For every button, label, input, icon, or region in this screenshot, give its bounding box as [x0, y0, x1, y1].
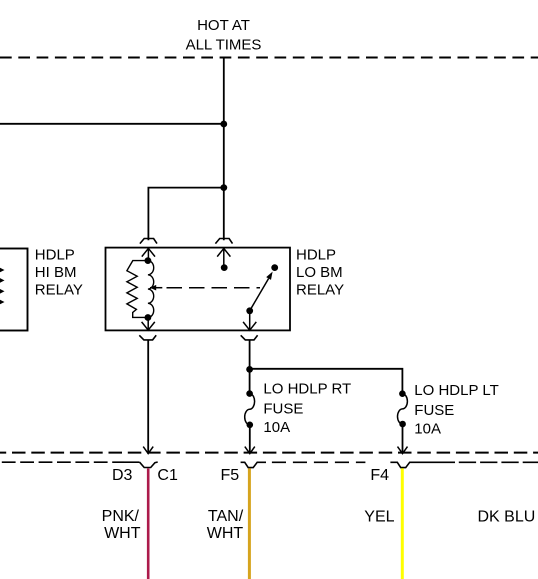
svg-text:10A: 10A — [414, 421, 441, 438]
hi-bm relay internal contact arrows (cut off at edge) — [0, 268, 3, 305]
pin arrow: switch supply into relay — [217, 248, 230, 267]
label: PNK/WHT — [102, 508, 141, 542]
label: LO HDLP RT FUSE 10A — [263, 380, 351, 436]
svg-text:DK BLU: DK BLU — [478, 509, 536, 526]
wire: coil output down to fuse block — [147, 340, 149, 452]
fuse block boundary: dashed line — [0, 452, 538, 454]
svg-text:PNK/: PNK/ — [102, 508, 140, 525]
connector face: solid segment before C1 cup — [124, 461, 140, 463]
arrow: wire entering fuse block (D3) — [143, 447, 153, 454]
connector cup: F5 (TAN/WHT wire) — [241, 462, 266, 467]
svg-text:D3: D3 — [112, 467, 133, 484]
connector face: dashed segment right — [459, 461, 538, 463]
junction: branch to LT fuse — [246, 366, 253, 373]
label: TAN/WHT — [207, 508, 244, 542]
relay coil winding — [148, 261, 154, 318]
wire: switch output down to fuses — [249, 340, 251, 392]
wire: branch right and down to LO HDLP LT fuse — [250, 369, 403, 392]
fuse: LO HDLP LT FUSE 10A — [397, 390, 407, 427]
label: HDLP LO BM RELAY — [296, 247, 344, 299]
svg-text:RELAY: RELAY — [35, 281, 83, 298]
wire: branch to lo-bm relay coil pin — [148, 188, 223, 241]
label: LO HDLP LT FUSE 10A — [414, 382, 498, 438]
connector: relay switch supply pin (half-connector) — [215, 239, 232, 244]
node: coil top junction — [145, 257, 152, 264]
connector face: dashed segment left — [0, 461, 124, 463]
svg-text:LO HDLP LT: LO HDLP LT — [414, 382, 498, 399]
svg-text:HOT AT: HOT AT — [197, 17, 250, 34]
connector: switch output pin (half-connector cup) — [241, 335, 258, 340]
svg-text:WHT: WHT — [104, 525, 141, 542]
arrow: wire entering connector F5 — [245, 447, 255, 454]
fuse: LO HDLP RT FUSE 10A — [245, 390, 255, 428]
pin arrow: coil supply into relay — [142, 248, 155, 260]
wire: RT fuse down to connector F5 — [249, 425, 251, 452]
contact: switch upper right terminal — [271, 264, 278, 271]
switch blade: movable contact with arrowhead — [250, 272, 273, 311]
pin arrow: switch output out of relay — [243, 311, 256, 330]
svg-text:F5: F5 — [221, 467, 240, 484]
svg-text:FUSE: FUSE — [414, 402, 454, 419]
svg-text:LO HDLP RT: LO HDLP RT — [263, 380, 351, 397]
wire: main feed from power rail down — [223, 58, 225, 241]
wire: TAN/WHT — [248, 468, 251, 579]
svg-text:WHT: WHT — [207, 525, 244, 542]
connector cup: F4 (YEL wire) — [390, 462, 455, 467]
wire: branch to HDLP HI BM relay (left edge) — [0, 123, 224, 125]
connector face: dashed segment between F5 and F4 — [272, 461, 366, 463]
node: switch common pivot — [246, 307, 253, 314]
connector cup: C1 (PNK/WHT wire) — [140, 462, 158, 468]
svg-text:ALL TIMES: ALL TIMES — [186, 36, 262, 53]
junction: feed / hi-bm branch — [220, 121, 227, 128]
relay box: HDLP LO BM RELAY — [106, 248, 291, 331]
svg-text:TAN/: TAN/ — [208, 508, 244, 525]
svg-text:F4: F4 — [370, 467, 389, 484]
connector: relay coil supply pin (half-connector) — [140, 239, 157, 244]
wire: YEL — [401, 468, 404, 579]
svg-text:LO BM: LO BM — [296, 264, 343, 281]
relay box (partial, cut off): HDLP HI BM RELAY — [0, 249, 28, 331]
node: coil bottom junction — [145, 314, 152, 321]
connector: coil output pin (half-connector cup) — [139, 335, 156, 340]
svg-text:HI BM: HI BM — [35, 264, 77, 281]
label: HDLP HI BM RELAY — [35, 247, 83, 299]
svg-text:HDLP: HDLP — [296, 247, 336, 264]
pin arrow: coil output out of relay — [142, 318, 155, 331]
svg-text:FUSE: FUSE — [263, 400, 303, 417]
mechanical link: dashed actuator line with arrow at coil — [150, 285, 260, 291]
wire: LT fuse down to connector F4 — [402, 424, 404, 452]
svg-text:C1: C1 — [157, 467, 178, 484]
node: switch input contact — [221, 264, 228, 271]
svg-text:YEL: YEL — [364, 509, 394, 526]
svg-text:HDLP: HDLP — [35, 247, 75, 264]
svg-text:RELAY: RELAY — [296, 281, 344, 298]
resistor: coil suppression resistor — [127, 261, 148, 318]
svg-text:10A: 10A — [263, 419, 290, 436]
power rail: dashed bus line (hot at all times) — [0, 57, 538, 59]
arrow: wire entering connector F4 — [398, 447, 408, 454]
label: HOT AT ALL TIMES power source — [186, 17, 262, 54]
wire: PNK/WHT — [147, 468, 150, 579]
junction: feed / coil branch — [220, 184, 227, 191]
